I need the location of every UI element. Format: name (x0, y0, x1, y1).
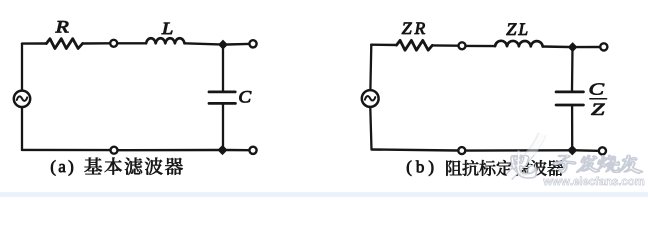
wire: capacitor C bottom lead (222, 105, 224, 148)
wire: right top rail node to inductor (467, 45, 495, 48)
wire: left top rail junction to output terminal (227, 43, 248, 46)
wire: right circuit left vertical lower (370, 108, 371, 150)
wire: right circuit left vertical upper (369, 45, 372, 89)
resistor R (46, 39, 82, 49)
label C/Z denominator Z (591, 104, 604, 115)
inductor L (146, 38, 184, 43)
node: open circle on right top rail (459, 42, 466, 49)
wire: capacitor C top lead (222, 45, 224, 91)
node: left circuit top output terminal (249, 40, 256, 47)
wire: left top rail resistor to node (83, 42, 110, 45)
capacitor C/Z top plate (556, 91, 583, 94)
node: open circle on left top rail (110, 40, 117, 47)
bottom page band (0, 192, 648, 197)
capacitor C bottom plate (209, 102, 235, 105)
wire: right top rail inductor to junction (543, 45, 569, 48)
wire: right bottom rail node to junction (467, 149, 568, 152)
junction: left bottom node diamond (218, 146, 227, 155)
wire: right top rail corner to resistor (371, 44, 396, 47)
caption (b) text 阻抗标定滤波器 (446, 160, 563, 176)
junction: left top node dot (219, 40, 227, 49)
wire: right top rail junction to output terminal (577, 46, 599, 48)
caption (a) prefix (51, 160, 73, 175)
label C/Z numerator C (590, 83, 604, 94)
capacitor C top plate (209, 91, 235, 94)
watermark faint upper texture (509, 134, 644, 185)
wire: left top rail inductor to junction (185, 43, 220, 44)
watermark white-out band over captions (509, 134, 644, 185)
wire: right bottom rail corner to node (372, 150, 458, 151)
inductor ZL (495, 41, 543, 47)
wire: capacitor C/Z top lead (571, 47, 574, 90)
resistor ZR (397, 40, 433, 50)
wire: capacitor C/Z bottom lead (571, 106, 573, 148)
caption (a) text 基本滤波器 (84, 157, 183, 174)
label C/Z fraction bar (589, 98, 607, 100)
label C (239, 91, 251, 102)
node: right circuit top output terminal (600, 43, 607, 50)
wire: left bottom rail junction to output terminal (227, 149, 248, 152)
wire: left circuit left vertical lower (21, 108, 23, 150)
wire: left top rail node to inductor (118, 42, 146, 44)
label R (55, 21, 68, 32)
wire: left circuit left vertical upper (21, 44, 23, 90)
wire: right top rail resistor to node (432, 44, 457, 47)
node: open circle on left bottom rail (111, 147, 118, 154)
node: open circle on right bottom rail (458, 147, 465, 154)
source V1 AC source (14, 91, 30, 107)
node: right circuit bottom output terminal (599, 147, 606, 154)
label ZL (506, 24, 527, 35)
junction: right top node dot (568, 43, 576, 52)
wire: left bottom rail corner to node (22, 149, 109, 152)
label L (162, 23, 173, 34)
junction: right bottom node diamond (568, 146, 577, 155)
wire: left top rail corner to resistor (22, 42, 46, 44)
wire: left bottom rail node to junction (119, 149, 219, 152)
node: left circuit bottom output terminal (249, 147, 256, 154)
capacitor C/Z bottom plate (556, 104, 583, 107)
source V2 AC source (362, 90, 379, 107)
label ZR (402, 23, 425, 34)
wire: right bottom rail junction to output terminal (577, 149, 598, 152)
caption (b) prefix (407, 161, 433, 176)
